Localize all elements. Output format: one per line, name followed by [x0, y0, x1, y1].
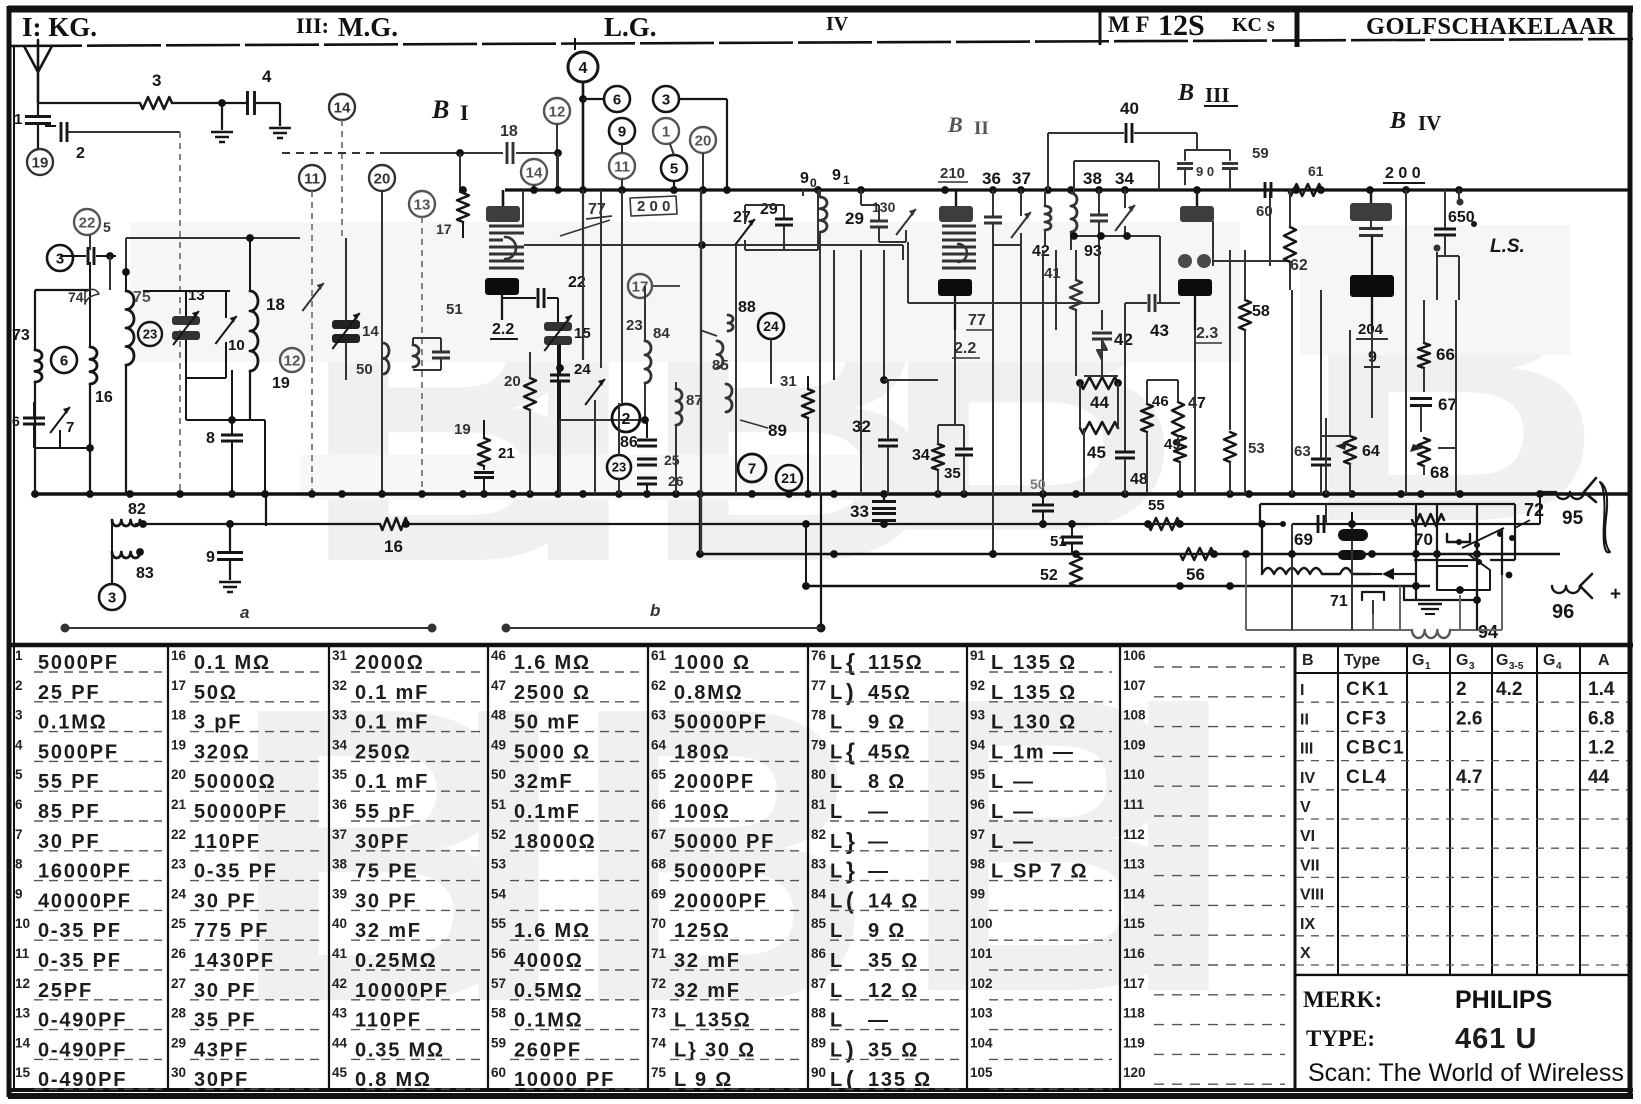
resistor R47: [1172, 380, 1206, 436]
svg-text:1.6 MΩ: 1.6 MΩ: [514, 920, 591, 942]
circled 23: [607, 455, 631, 479]
svg-text:55 pF: 55 pF: [355, 801, 416, 823]
svg-text:(: (: [846, 887, 854, 913]
svg-text:26: 26: [668, 473, 684, 489]
watermark: [130, 141, 1603, 1090]
svg-text:1.2: 1.2: [1588, 738, 1614, 759]
svg-text:650: 650: [1448, 209, 1475, 226]
svg-text:74: 74: [68, 289, 84, 305]
svg-text:10: 10: [228, 337, 245, 354]
circled 12 top: [544, 98, 570, 190]
svg-text:16: 16: [171, 648, 187, 663]
svg-text:CBC1: CBC1: [1346, 738, 1406, 759]
capacitor C40: [1048, 99, 1197, 190]
svg-text:50Ω: 50Ω: [194, 682, 238, 704]
svg-text:51: 51: [1050, 533, 1067, 550]
label III MG: [296, 12, 398, 42]
svg-text:CL4: CL4: [1346, 767, 1388, 788]
svg-text:SP 7 Ω: SP 7 Ω: [1013, 861, 1088, 883]
svg-text:35: 35: [332, 767, 348, 782]
svg-text:16: 16: [384, 537, 403, 556]
svg-text:23: 23: [612, 460, 626, 475]
arrow on 574: [1370, 568, 1415, 580]
capacitor C51: [1050, 524, 1083, 554]
svg-text:G: G: [1543, 652, 1555, 669]
switch 70 bracket: [1447, 534, 1470, 545]
psu ground: [1418, 604, 1442, 614]
svg-text:L: L: [991, 652, 1003, 674]
svg-text:10000PF: 10000PF: [355, 980, 449, 1002]
circled 22: [74, 209, 111, 235]
svg-text:66: 66: [651, 797, 667, 812]
circled 3 top: [653, 86, 727, 112]
svg-text:42: 42: [332, 976, 347, 991]
resistor R45: [1080, 383, 1118, 462]
wire left col: [35, 235, 110, 350]
tube B III anode: [1180, 190, 1214, 222]
label 31: [780, 373, 797, 390]
svg-text:30 PF: 30 PF: [194, 890, 256, 912]
svg-text:25: 25: [171, 916, 187, 931]
label 72: [1515, 500, 1544, 528]
coil L83: [112, 520, 154, 582]
svg-text:8: 8: [206, 430, 215, 447]
wire sub-bus 586: [802, 582, 1430, 590]
svg-text:IV: IV: [826, 13, 849, 35]
wire BIV extra: [1292, 236, 1459, 494]
svg-text:0.1 mF: 0.1 mF: [355, 712, 429, 734]
label 86: [620, 434, 638, 451]
parts table column 76-90: [811, 648, 961, 1092]
svg-text:4.2: 4.2: [1496, 679, 1522, 700]
svg-text:60: 60: [1256, 203, 1273, 220]
svg-text:2: 2: [622, 411, 631, 428]
tube B IV cathode: [1350, 275, 1394, 330]
svg-text:0.25MΩ: 0.25MΩ: [355, 950, 437, 972]
svg-text:L: L: [991, 801, 1003, 823]
svg-text:58: 58: [491, 1006, 507, 1021]
label 210: [938, 165, 968, 182]
svg-text:16: 16: [95, 389, 113, 406]
svg-text:L: L: [830, 831, 842, 853]
svg-text:19: 19: [32, 154, 49, 171]
svg-text:85: 85: [811, 916, 827, 931]
svg-text:17: 17: [171, 678, 186, 693]
svg-text:IV: IV: [1418, 111, 1441, 135]
tube table rows: [1296, 679, 1628, 965]
terminal minus: [1540, 478, 1623, 505]
svg-text:97: 97: [970, 827, 985, 842]
svg-text:76: 76: [811, 648, 827, 663]
svg-text:250Ω: 250Ω: [355, 741, 412, 763]
svg-text:135 Ω: 135 Ω: [868, 1069, 932, 1091]
svg-text:50: 50: [356, 361, 373, 378]
label 2.2 BII: [952, 340, 980, 358]
brand box: [1303, 986, 1624, 1087]
capacitor C24: [550, 344, 591, 420]
resistor R52: [1040, 556, 1082, 586]
svg-text:29: 29: [171, 1035, 186, 1050]
capacitor C9: [206, 520, 243, 592]
svg-text:111: 111: [1123, 797, 1145, 812]
header separator MF box left: [1099, 10, 1102, 45]
svg-text:A: A: [1598, 652, 1610, 669]
svg-text:18: 18: [266, 295, 285, 314]
svg-text:14: 14: [362, 323, 379, 340]
svg-text:80: 80: [811, 767, 826, 782]
svg-text:8 Ω: 8 Ω: [868, 771, 906, 793]
resistor R16: [380, 518, 408, 556]
svg-text:32: 32: [332, 678, 347, 693]
coil L88: [728, 299, 756, 331]
capacitor C48: [1115, 428, 1148, 494]
capacitor C63: [1294, 436, 1350, 494]
svg-text:—: —: [1013, 771, 1035, 793]
svg-text:L: L: [830, 771, 842, 793]
wire right col: [1539, 494, 1541, 524]
capacitor BII sg: [984, 190, 1002, 245]
svg-text:96: 96: [970, 797, 986, 812]
wire mf2 drops: [1043, 250, 1056, 494]
svg-text:68: 68: [651, 857, 667, 872]
svg-text:47: 47: [491, 678, 506, 693]
svg-text:9: 9: [832, 167, 841, 184]
svg-text:B: B: [1302, 652, 1314, 669]
capacitor C67: [1410, 395, 1457, 432]
coil L82: [112, 501, 146, 526]
svg-text:L: L: [991, 771, 1003, 793]
svg-text:31: 31: [780, 373, 797, 390]
svg-text:L: L: [830, 980, 842, 1002]
svg-text:12: 12: [549, 103, 566, 120]
svg-text:43PF: 43PF: [194, 1039, 249, 1061]
trimmer C10: [186, 291, 245, 378]
svg-text:119: 119: [1123, 1035, 1145, 1050]
svg-text:12: 12: [284, 352, 301, 369]
wire c14 down: [341, 120, 343, 238]
svg-text:260PF: 260PF: [514, 1039, 582, 1061]
svg-text:2.2: 2.2: [954, 340, 976, 357]
svg-text:0-490PF: 0-490PF: [38, 1069, 127, 1091]
variable capacitor 15: [544, 298, 591, 494]
svg-text:24: 24: [574, 361, 591, 378]
parts table column 31-45: [332, 648, 482, 1091]
tube B I anode: [486, 190, 520, 222]
svg-text:23: 23: [626, 317, 643, 334]
svg-text:102: 102: [970, 976, 993, 991]
svg-text:84: 84: [653, 325, 670, 342]
label GOLFSCHAKELAAR: [1366, 13, 1615, 40]
svg-text:32mF: 32mF: [514, 771, 573, 793]
svg-text:—: —: [868, 831, 890, 853]
wire sub-bus 524: [135, 523, 1540, 525]
svg-text:20: 20: [504, 373, 521, 390]
svg-text:3: 3: [152, 71, 161, 90]
svg-text:125Ω: 125Ω: [674, 920, 731, 942]
resistor R64: [1335, 418, 1380, 494]
svg-text:101: 101: [970, 946, 993, 961]
svg-text:320Ω: 320Ω: [194, 741, 251, 763]
svg-text:77: 77: [811, 678, 826, 693]
svg-text:L: L: [830, 950, 842, 972]
label 23 84: [626, 317, 670, 342]
svg-text:G: G: [1412, 652, 1424, 669]
resistor R55: [1148, 497, 1180, 530]
svg-text:40000PF: 40000PF: [38, 890, 132, 912]
svg-text:I: I: [460, 100, 469, 125]
svg-text:210: 210: [940, 165, 965, 182]
svg-text:B: B: [880, 151, 1183, 620]
svg-text:8: 8: [15, 857, 23, 872]
svg-text:5: 5: [15, 767, 23, 782]
svg-text:89: 89: [768, 421, 787, 440]
label 60: [1256, 203, 1273, 220]
svg-text:Scan: The World of Wireless: Scan: The World of Wireless: [1308, 1059, 1624, 1087]
label 200 boxed: [630, 196, 677, 216]
svg-text:38: 38: [1083, 169, 1102, 188]
svg-text:6: 6: [15, 797, 23, 812]
svg-text:28: 28: [171, 1006, 187, 1021]
resistor R17: [436, 186, 469, 238]
svg-text:85: 85: [712, 357, 729, 374]
svg-text:4000Ω: 4000Ω: [514, 950, 584, 972]
svg-text:82: 82: [811, 827, 826, 842]
wire osc bottom: [35, 382, 90, 494]
wire 818: [803, 190, 818, 250]
svg-text:6.8: 6.8: [1588, 708, 1614, 729]
svg-text:27: 27: [733, 209, 751, 226]
svg-text:L 9 Ω: L 9 Ω: [674, 1069, 733, 1091]
svg-text:37: 37: [1012, 169, 1031, 188]
svg-text:0-490PF: 0-490PF: [38, 1039, 127, 1061]
svg-text:96: 96: [1552, 601, 1574, 623]
wire 806 drop: [806, 494, 826, 633]
svg-text:0-35 PF: 0-35 PF: [38, 950, 122, 972]
resistor R56: [1180, 548, 1214, 584]
svg-text:2.3: 2.3: [1196, 325, 1218, 342]
svg-text:35 Ω: 35 Ω: [868, 950, 919, 972]
svg-text:55: 55: [491, 916, 507, 931]
svg-text:30 PF: 30 PF: [194, 980, 256, 1002]
svg-text:110PF: 110PF: [194, 831, 261, 853]
wire BII col drops: [820, 250, 938, 494]
svg-text:L: L: [830, 682, 842, 704]
svg-text:L: L: [830, 801, 842, 823]
label 650: [1448, 209, 1477, 227]
svg-text:44: 44: [1588, 767, 1610, 788]
svg-text:II: II: [1300, 711, 1309, 728]
circled 3 left: [47, 245, 73, 271]
svg-text:74: 74: [651, 1035, 667, 1050]
svg-text:60: 60: [491, 1065, 506, 1080]
svg-text:CF3: CF3: [1346, 708, 1388, 729]
svg-text:53: 53: [1248, 440, 1265, 457]
svg-text:L: L: [830, 741, 842, 763]
svg-text:110PF: 110PF: [355, 1010, 422, 1032]
wire grid row: [282, 149, 503, 157]
svg-text:204: 204: [1358, 321, 1384, 338]
svg-text:93: 93: [970, 708, 986, 723]
resistor R46: [1141, 380, 1169, 452]
svg-text:30 PF: 30 PF: [355, 890, 417, 912]
svg-text:50000PF: 50000PF: [194, 801, 288, 823]
svg-text:45: 45: [332, 1065, 348, 1080]
resistor R68: [1410, 438, 1456, 482]
svg-text:54: 54: [491, 886, 507, 901]
svg-text:L: L: [830, 1069, 842, 1091]
parts table column 16-30: [171, 648, 323, 1091]
svg-text:84: 84: [811, 886, 827, 901]
wire antenna to resistor 3: [38, 102, 140, 104]
coil L18: [246, 234, 285, 420]
capacitor C6: [12, 402, 45, 429]
table inner left rule: [13, 46, 15, 1090]
svg-text:94: 94: [970, 737, 986, 752]
svg-text:12S: 12S: [1158, 9, 1205, 42]
svg-text:55 PF: 55 PF: [38, 771, 100, 793]
svg-text:19: 19: [454, 421, 471, 438]
svg-text:0.1 mF: 0.1 mF: [355, 771, 429, 793]
svg-text:30 PF: 30 PF: [38, 831, 100, 853]
circled 23 left: [138, 322, 162, 346]
resistor R41: [1070, 250, 1082, 376]
tube B I body: [489, 226, 524, 268]
svg-text:113: 113: [1123, 857, 1145, 872]
svg-text:MERK:: MERK:: [1303, 987, 1382, 1012]
svg-text:41: 41: [1044, 265, 1061, 282]
svg-text:B: B: [1389, 108, 1406, 134]
svg-text:1: 1: [14, 111, 22, 128]
svg-text:115: 115: [1123, 916, 1145, 931]
svg-text:2: 2: [15, 678, 23, 693]
svg-text:17: 17: [436, 221, 452, 237]
header rule: [8, 39, 1633, 46]
circled 13: [409, 191, 435, 217]
wire BI vertical 523: [522, 190, 524, 226]
svg-text:90: 90: [811, 1065, 826, 1080]
label 53: [1248, 440, 1265, 457]
svg-text:4: 4: [262, 67, 272, 86]
circled 14 mid: [521, 159, 547, 190]
svg-text:36: 36: [332, 797, 348, 812]
svg-text:64: 64: [651, 737, 667, 752]
label 2.2 BI: [490, 321, 518, 339]
svg-text:117: 117: [1123, 976, 1145, 991]
svg-text:72: 72: [1524, 500, 1544, 520]
svg-text:50 mF: 50 mF: [514, 712, 581, 734]
svg-text:0-35 PF: 0-35 PF: [38, 920, 122, 942]
svg-text:49: 49: [491, 737, 506, 752]
capacitor C35: [938, 425, 973, 494]
svg-text:25PF: 25PF: [38, 980, 93, 1002]
svg-text:58: 58: [1252, 303, 1270, 320]
svg-text:L: L: [830, 1010, 842, 1032]
svg-text:VI: VI: [1300, 828, 1315, 845]
circled 4: [568, 52, 598, 190]
svg-text:L: L: [991, 861, 1003, 883]
svg-text:2.2: 2.2: [492, 321, 514, 338]
svg-text:4.7: 4.7: [1456, 767, 1482, 788]
svg-text:20: 20: [171, 767, 186, 782]
svg-text:11: 11: [15, 946, 30, 961]
capacitor C18: [500, 123, 562, 164]
wire c13 down: [421, 217, 423, 494]
circled 17: [628, 274, 680, 298]
svg-text:99: 99: [970, 886, 985, 901]
svg-text:L} 30 Ω: L} 30 Ω: [674, 1039, 756, 1061]
svg-text:71: 71: [1330, 593, 1348, 610]
svg-text:50: 50: [491, 767, 506, 782]
circled 9: [609, 118, 635, 144]
svg-text:5000 Ω: 5000 Ω: [514, 741, 591, 763]
svg-text:59: 59: [491, 1035, 506, 1050]
svg-text:L: L: [991, 831, 1003, 853]
label 77 underlined: [560, 201, 612, 236]
svg-text:27: 27: [171, 976, 186, 991]
svg-text:–: –: [1612, 483, 1623, 505]
ground at node 3a: [211, 103, 233, 142]
trimmer 24: [560, 379, 647, 440]
label 19: [272, 375, 290, 392]
svg-text:50000PF: 50000PF: [674, 712, 768, 734]
svg-text:42: 42: [1032, 243, 1050, 260]
labels 90 91: [800, 167, 850, 190]
resistor R44: [1076, 377, 1122, 412]
svg-text:62: 62: [1290, 257, 1308, 274]
svg-text:63: 63: [1294, 443, 1311, 460]
wire c20 down: [381, 191, 383, 494]
svg-text:18: 18: [500, 123, 518, 140]
switch diagonal: [1462, 528, 1504, 548]
tube B I cathode: [485, 278, 519, 320]
svg-text:G: G: [1496, 652, 1508, 669]
capacitor C650: [1434, 190, 1456, 256]
resistor R20: [504, 352, 536, 494]
coil L29 tank: [820, 190, 864, 250]
resistor R58: [1239, 250, 1270, 494]
wire BIII right col: [1230, 190, 1270, 430]
trimmer BII: [993, 190, 1031, 245]
circled 19: [27, 149, 53, 175]
antenna: [24, 40, 52, 103]
tube B III cathode: [1178, 279, 1212, 330]
coil L16: [90, 347, 113, 406]
svg-text:3-5: 3-5: [1509, 661, 1524, 672]
svg-text:0.8 MΩ: 0.8 MΩ: [355, 1069, 432, 1091]
labels 38 39: [1083, 169, 1134, 188]
label 95: [1562, 508, 1584, 529]
capacitor mf2: [1090, 190, 1108, 250]
svg-text:0-35 PF: 0-35 PF: [194, 861, 278, 883]
svg-text:—: —: [1013, 831, 1035, 853]
svg-text:5: 5: [103, 219, 111, 235]
tube table header: [1302, 652, 1610, 672]
svg-text:0.1 MΩ: 0.1 MΩ: [194, 652, 271, 674]
svg-text:11: 11: [304, 170, 320, 187]
wire circled3 right drop: [726, 99, 728, 190]
svg-text:1000 Ω: 1000 Ω: [674, 652, 751, 674]
svg-text:III: III: [1300, 741, 1313, 758]
svg-text:36: 36: [982, 169, 1001, 188]
svg-text:M F: M F: [1108, 12, 1150, 37]
capacitor C1: [14, 103, 51, 148]
svg-text:100: 100: [970, 916, 993, 931]
svg-text:13: 13: [414, 196, 431, 213]
node b line: [502, 601, 823, 633]
label 74: [68, 289, 99, 305]
label 71: [1330, 592, 1384, 614]
svg-text:70: 70: [651, 916, 666, 931]
